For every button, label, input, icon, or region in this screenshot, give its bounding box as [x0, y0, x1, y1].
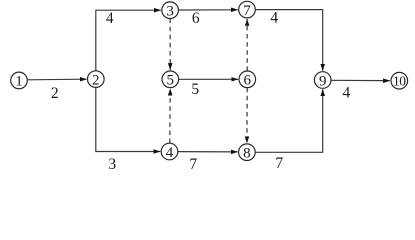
node 5 — [162, 71, 179, 89]
wire dashed dummy 3-5 — [169, 19, 171, 70]
wire edge 5-6 — [179, 78, 239, 80]
node 7 — [239, 1, 256, 19]
wire edge 2-3 — [96, 10, 161, 71]
svg-text:4: 4 — [166, 145, 174, 161]
wire dashed dummy 6-8 — [246, 88, 248, 144]
node 10 — [391, 72, 408, 89]
node 3 — [162, 2, 179, 20]
node 1 — [11, 72, 28, 90]
label 4 (edge 7-9) — [270, 9, 278, 26]
svg-text:1: 1 — [15, 74, 23, 90]
node 2 — [88, 71, 105, 89]
wire dashed dummy 6-7 — [246, 19, 248, 71]
wire edge 3-7 — [178, 9, 237, 11]
node 4 — [161, 143, 178, 161]
svg-text:9: 9 — [319, 73, 327, 89]
svg-text:10: 10 — [393, 74, 406, 89]
label 4 (edge 9-10) — [343, 84, 351, 101]
svg-text:7: 7 — [189, 156, 197, 171]
wire edge 4-8 — [178, 151, 238, 153]
label 6 (edge 3-7) — [192, 10, 200, 27]
svg-text:2: 2 — [92, 72, 100, 88]
wire edge 2-4 — [96, 87, 161, 151]
svg-text:8: 8 — [243, 146, 251, 162]
label 5 (edge 5-6) — [191, 81, 199, 98]
wire edge 9-10 — [331, 79, 390, 81]
node 6 — [239, 71, 256, 89]
node 9 — [314, 72, 331, 90]
svg-text:7: 7 — [243, 3, 251, 19]
node 8 — [239, 144, 256, 162]
label 4 (edge 2-3) — [106, 10, 114, 27]
svg-text:4: 4 — [270, 9, 278, 26]
svg-text:5: 5 — [191, 81, 199, 98]
svg-text:6: 6 — [244, 73, 252, 89]
wire dashed dummy 4-5 — [169, 89, 171, 143]
label 2 (edge 1-2) — [51, 85, 59, 102]
svg-text:6: 6 — [192, 10, 200, 27]
wire edge 8-9 — [255, 89, 323, 152]
svg-text:3: 3 — [108, 156, 116, 171]
wire edge 1-2 — [27, 78, 86, 81]
label 3 (edge 2-4) — [108, 156, 116, 173]
svg-text:3: 3 — [166, 4, 174, 20]
svg-text:7: 7 — [275, 155, 283, 171]
label 7 (edge 8-9) — [275, 155, 283, 172]
svg-text:2: 2 — [51, 85, 59, 102]
label 7 (edge 4-8) — [189, 156, 197, 173]
wire edge 7-9 — [255, 10, 322, 71]
svg-text:4: 4 — [106, 10, 114, 27]
svg-text:4: 4 — [343, 84, 351, 101]
svg-text:5: 5 — [167, 73, 175, 89]
